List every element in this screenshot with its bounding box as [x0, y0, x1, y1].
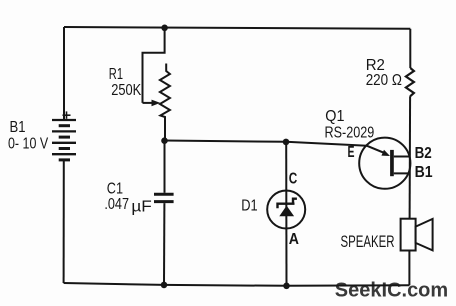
transistor Q1 emitter arrow: [367, 146, 384, 153]
svg-text:B1: B1: [10, 119, 26, 136]
node: junction top rail / R1: [161, 25, 168, 32]
svg-text:C1: C1: [107, 180, 123, 197]
svg-text:E: E: [348, 144, 355, 161]
transistor Q1 circle: [359, 138, 410, 189]
wire: D1 vertical through circle: [285, 142, 287, 286]
svg-text:RS-2029: RS-2029: [325, 125, 375, 142]
transistor Q1 B1 lead: [394, 172, 410, 174]
transistor Q1 B2 lead: [394, 156, 410, 158]
svg-text:0- 10 V: 0- 10 V: [8, 136, 48, 153]
node: junction mid rail / R1 / C1: [161, 137, 168, 144]
transistor Q1 base bar: [390, 150, 394, 176]
wire: mid rail (R1/C1 node to D1 node to Q1 emitter): [165, 141, 368, 146]
svg-text:B1: B1: [415, 164, 433, 181]
svg-text:B2: B2: [415, 145, 432, 162]
svg-text:250K: 250K: [111, 82, 141, 99]
node: junction bottom rail / C1: [161, 282, 168, 289]
battery B1: [52, 120, 76, 160]
speaker body: [401, 219, 416, 251]
wire: bottom rail: [64, 283, 410, 286]
svg-text:220 Ω: 220 Ω: [366, 72, 402, 89]
node: junction bottom rail / D1: [283, 283, 290, 290]
wire: top rail: [64, 27, 410, 29]
svg-text:.047: .047: [104, 196, 129, 213]
svg-text:C: C: [289, 170, 298, 187]
wire: R1 wiper connection to top rail: [143, 28, 165, 103]
svg-text:A: A: [289, 231, 299, 248]
wire: C1 bottom plate to bottom rail: [163, 203, 165, 285]
wire: speaker to bottom rail: [408, 251, 410, 286]
svg-text:SeekIC.com: SeekIC.com: [335, 278, 448, 301]
resistor R1 (250K potentiometer): [160, 64, 170, 141]
wire: right rail upper (top rail to R2): [409, 29, 411, 68]
diode D1 circle: [267, 191, 305, 229]
capacitor C1: [154, 194, 174, 201]
wire: left rail lower (battery - to bottom rail): [63, 160, 65, 284]
svg-text:SPEAKER: SPEAKER: [341, 232, 395, 251]
diode D1 zener symbol: [278, 199, 297, 217]
resistor R2: [406, 68, 414, 96]
svg-text:µF: µF: [131, 198, 152, 215]
battery plus sign: [63, 111, 71, 118]
node: junction mid rail / D1: [283, 139, 290, 146]
wire: left rail upper (battery + to top rail): [63, 27, 65, 121]
svg-text:Q1: Q1: [325, 108, 344, 125]
svg-text:R1: R1: [109, 66, 123, 83]
speaker horn: [416, 219, 433, 251]
wire: right rail mid (R2 to B2/speaker): [409, 96, 412, 218]
R1 wiper arrow: [143, 102, 154, 104]
svg-text:D1: D1: [241, 197, 257, 214]
wire: node to C1 top plate: [164, 141, 166, 193]
